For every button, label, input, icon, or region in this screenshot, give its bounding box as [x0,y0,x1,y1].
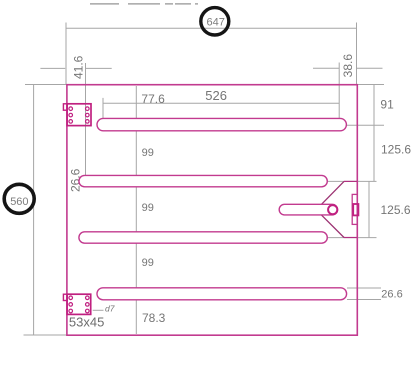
svg-text:99: 99 [142,257,154,269]
collector upper horizontal [344,180,357,182]
body outline [67,85,357,336]
bracket bottom holes [69,296,89,313]
svg-text:647: 647 [207,16,225,28]
svg-text:26.6: 26.6 [381,289,402,301]
right side dim line at body top level [357,84,384,86]
tube 2 [79,175,327,186]
svg-text:77.6: 77.6 [141,92,165,106]
svg-text:d7: d7 [105,304,115,314]
svg-text:78.3: 78.3 [142,311,166,325]
svg-text:560: 560 [10,196,28,208]
balloon circle 647 [201,8,229,35]
heating element tube [279,204,337,215]
terminal box outer [352,194,357,224]
dimension 560 vertical line [33,85,35,336]
extension line x=339.2 down to tube1 center [338,63,340,126]
svg-text:526: 526 [205,88,227,103]
collector lower diagonal [322,215,345,237]
extension line x=85.5 down to tube2 cap center [85,63,87,179]
dimension 77.6 / 526 line [103,102,339,104]
extension tick top at body top [25,84,67,86]
tube4 diameter ext lines 26.6 [347,287,381,289]
svg-text:125.6: 125.6 [381,203,411,217]
dimension 38.6 line [313,67,339,69]
leader line d7 [93,309,104,311]
bracket top holes [69,107,89,123]
extension line x=136.3 full height [135,86,137,334]
heating element ring [328,205,337,214]
vertical dim line x=374 (91 and 125.6) [373,85,375,182]
bracket top tab [63,104,67,110]
bracket bottom tab [63,294,67,300]
svg-text:41.6: 41.6 [72,55,86,79]
extension line left (x=66) [65,23,67,85]
bracket top rectangle [67,104,91,126]
svg-text:38.6: 38.6 [341,54,355,78]
bracket bottom rectangle [67,294,91,314]
vertical dim line x=369 (125.6 lower) [368,181,370,237]
balloon circle 560 [4,184,34,213]
dimension 647 line top [24,23,385,336]
dimension 41.6 line [40,67,65,69]
extension line x=103 at tube1 left cap [102,98,104,125]
collector upper diagonal [322,181,345,204]
tube 1 (top) [97,118,346,130]
cropped text remnants top edge [90,3,198,5]
right side dim line at tube3 center [328,237,377,239]
right side dim line at tube1 center [346,124,384,126]
terminal box inner [353,204,358,215]
svg-text:99: 99 [142,147,154,159]
tube 4 (bottom) [97,288,347,300]
svg-text:125.6: 125.6 [381,143,411,157]
svg-text:99: 99 [142,202,154,214]
svg-text:91: 91 [380,97,394,111]
right side dim line at tube2 center [324,180,376,182]
extension tick bottom at body bottom [24,334,67,336]
svg-text:53x45: 53x45 [69,315,104,330]
dimension texts [68,54,411,330]
extension line right (x=356.5) [356,23,358,85]
collector lower horizontal [344,237,357,239]
tube 3 [79,232,327,243]
